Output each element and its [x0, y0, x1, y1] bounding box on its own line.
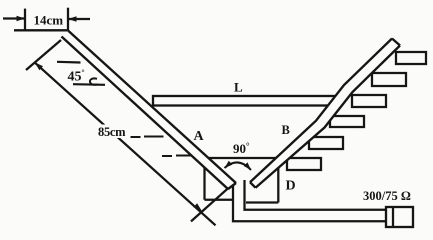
- svg-text:A: A: [194, 129, 205, 144]
- svg-text:14cm: 14cm: [34, 12, 64, 27]
- step S6: [396, 52, 426, 64]
- dimension 14cm right tick: [67, 8, 69, 31]
- 85cm bottom witness tick: [191, 188, 228, 221]
- dimension 14cm left tick: [24, 9, 26, 30]
- dimension 14cm right arrow: [68, 18, 90, 20]
- svg-text:B: B: [282, 123, 290, 137]
- left tube: [62, 31, 237, 190]
- dimension 14cm left arrow: [3, 17, 25, 19]
- rod L: [153, 96, 336, 106]
- right tube: [250, 39, 400, 188]
- liquid dash 2b: [176, 155, 191, 157]
- junction box: [205, 158, 279, 203]
- svg-text:85cm: 85cm: [98, 125, 126, 139]
- 45 degree dash below: [73, 83, 105, 86]
- 85cm top witness tick: [26, 40, 61, 70]
- step S5: [372, 73, 406, 86]
- liquid dash 2a: [162, 155, 172, 157]
- svg-text:300/75 Ω: 300/75 Ω: [363, 189, 411, 203]
- liquid dash 1b: [144, 136, 164, 138]
- 90-degree arc: [225, 162, 252, 170]
- drain channel outer wall: [233, 186, 386, 222]
- step S1: [287, 158, 321, 170]
- liquid dash 1a: [131, 136, 141, 138]
- text 85cm white backing: [96, 125, 129, 139]
- junction box bottom-right edge: [246, 201, 278, 203]
- step S3: [330, 116, 364, 127]
- junction box bottom-left edge: [205, 199, 234, 201]
- drain channel inner wall: [245, 180, 387, 210]
- top ground line: [14, 29, 68, 31]
- svg-text:L: L: [234, 80, 243, 95]
- 45 degree angle hook: [90, 78, 98, 84]
- resistor box: [386, 207, 413, 227]
- 85cm top arrowhead: [35, 62, 44, 70]
- 45 degree dash above: [57, 61, 81, 64]
- 85cm dimension line: [35, 62, 216, 225]
- step S2: [309, 137, 343, 149]
- step S4: [352, 95, 386, 107]
- 85cm bottom arrowhead: [194, 203, 203, 211]
- svg-text:D: D: [286, 179, 296, 194]
